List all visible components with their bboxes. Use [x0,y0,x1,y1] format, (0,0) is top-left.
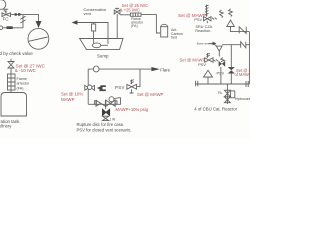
svg-text:Rupture disc for fire case.: Rupture disc for fire case. [77,122,125,127]
svg-text:Reaction.: Reaction. [195,29,211,33]
PSV U2 [206,53,210,58]
drop to dark valve [230,45,232,67]
riser to tank [10,68,12,93]
svg-text:(FA): (FA) [17,86,24,90]
svg-text:arrestor: arrestor [17,82,30,86]
PSV U3 dark [221,58,225,62]
dark valve [228,67,235,74]
right header riser [248,32,250,84]
svg-text:MAWP+10% psig: MAWP+10% psig [116,107,149,112]
control valve FC [2,13,11,17]
spring glyph [229,9,233,17]
pump bowl [92,43,100,48]
svg-text:efinery: efinery [0,124,12,129]
hydrocarbon seal [226,84,228,104]
svg-text:(FA): (FA) [131,24,138,28]
drain stem [105,106,107,109]
svg-text:MAWP: MAWP [61,97,75,102]
instrument bubble top-left [0,0,6,9]
svg-text:& +25 IWC: & +25 IWC [120,7,140,12]
flame arrestor FA2 [8,74,16,90]
tee line [88,98,120,105]
spring glyph [220,10,224,18]
sump [80,39,123,50]
svg-text:& -10 IWC: & -10 IWC [15,68,37,73]
riser to sump [116,14,118,38]
dark fitting [97,86,103,91]
drain marks [103,116,109,120]
riser left [87,69,89,104]
svg-text:Set @ 10%: Set @ 10% [61,91,83,96]
dark drain valve [102,109,109,116]
reactor header [196,83,250,85]
PSV U4 [130,80,134,84]
conservation vent valve V2 [114,10,120,14]
svg-text:FC: FC [3,17,9,22]
check valve triangle [204,70,213,77]
svg-text:d by check valve: d by check valve [0,51,33,56]
wire row2 [3,27,23,29]
tank vent valve [8,62,14,69]
rupture disc RD1 [239,27,246,34]
pipe-end circle [0,26,3,30]
svg-text:PSV: PSV [194,17,202,22]
wire to rupture disc 2 [222,44,241,46]
sump pump rod [93,23,95,25]
check valve triangle [227,20,235,27]
svg-text:4 of CBU Cat. Reactor: 4 of CBU Cat. Reactor [194,106,237,111]
svg-text:PSV for closed vent scenario.: PSV for closed vent scenario. [77,127,132,132]
svg-text:Set @ MAWP: Set @ MAWP [137,92,164,97]
svg-text:PSV: PSV [115,85,125,90]
inlet glyph to PSV [109,97,114,102]
break riser [22,15,24,28]
svg-text:bed: bed [171,36,177,40]
sump discharge line w/ arrow [77,23,108,45]
svg-text:Hydrocarb: Hydrocarb [235,97,250,101]
funnel vent [216,46,222,51]
flame arrestor FA [131,13,142,16]
svg-text:Flare: Flare [160,67,170,72]
wire valve to blower [11,15,39,22]
PSV U1 [205,5,209,17]
rupture disc RD2 [241,42,246,48]
svg-text:Flame: Flame [17,77,27,81]
wire w/ arrow into funnel [209,43,216,46]
double valve fitting [96,100,105,106]
svg-text:vent: vent [84,11,92,16]
svg-text:PSV: PSV [198,62,206,67]
inline dark component [7,26,13,29]
wire bubble to valve [4,10,7,13]
inline marks [15,13,17,16]
svg-text:of MAWP: of MAWP [235,72,251,77]
svg-text:1 W: 1 W [110,117,116,121]
valve w/ indicator [85,85,95,90]
svg-text:Sump: Sump [97,53,109,58]
flare line [88,68,151,70]
arrow into blower [36,21,42,28]
carbon bed [161,24,168,27]
blower [28,28,49,49]
wire to carbon bed [141,15,160,33]
flare arrow [151,67,159,71]
wire to rupture disc [230,27,249,32]
wire valve to flame arrestor [120,14,131,16]
tank [1,93,27,117]
